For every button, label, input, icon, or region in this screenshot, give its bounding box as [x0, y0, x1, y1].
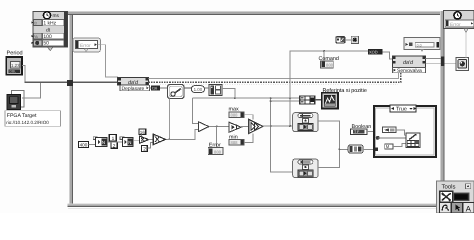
stop terminal pair [336, 37, 345, 43]
encoder FPGA node B [120, 137, 133, 147]
scaling express icon [168, 85, 185, 99]
junction dots [234, 97, 236, 99]
svg-text:888: 888 [231, 113, 239, 118]
position bus wire [192, 97, 299, 99]
timed loop frame bottom band [68, 203, 445, 208]
max constant terminal [229, 112, 244, 118]
svg-text:XOD: XOD [369, 50, 378, 55]
svg-text:Period: Period [7, 50, 23, 57]
subtract function [198, 122, 209, 132]
constant 16 [139, 129, 146, 135]
Boolean terminal [351, 129, 368, 134]
scaled setpoint vertical wire [168, 98, 170, 139]
index array node [209, 85, 222, 96]
svg-text:888: 888 [214, 150, 222, 155]
input node row: period 100 [34, 33, 64, 40]
svg-text:dt: dt [46, 28, 51, 34]
wire pill to index array [205, 87, 210, 89]
setpoint wire to subtract bottom input [166, 130, 199, 140]
thin numeric wire from Deplasare to Servovalva bottom [148, 72, 398, 78]
command wire up to Comand/XOD [290, 51, 368, 126]
wire I16 to Servovalva [382, 52, 392, 59]
svg-text:16: 16 [140, 130, 146, 135]
Error cluster (top-left inside loop) [73, 38, 101, 52]
merge pill node [348, 145, 363, 153]
svg-text:N: N [102, 140, 105, 145]
wire subtract output [209, 125, 229, 127]
gain function triangle [229, 122, 241, 132]
input node row arrows [31, 21, 33, 23]
wire 16 down to multiply [141, 135, 143, 138]
Period terminal icon [6, 57, 22, 75]
border tunnels right [441, 57, 445, 66]
wire branch down to subtract top input [192, 98, 198, 123]
faint dotted wire [160, 84, 398, 86]
wire down to Error indicator [216, 126, 218, 147]
write to file icon [406, 133, 420, 148]
DBL coercion box [151, 86, 160, 91]
coerce function triangle [249, 119, 263, 133]
wire Comand tap [323, 51, 325, 61]
Tools palette operate button [440, 202, 452, 213]
wire tunnel to write icon [378, 137, 406, 139]
case selector terminal [376, 136, 380, 140]
svg-text:2: 2 [143, 147, 146, 153]
wire N! to write icon [393, 144, 406, 147]
wire scaling icon to pill converter [184, 87, 191, 89]
svg-text:Deplasare: Deplasare [122, 86, 145, 92]
constant 1 [109, 135, 116, 143]
wire multiply to divide [149, 139, 154, 141]
Tools palette LED display [454, 193, 469, 201]
svg-text:A: A [466, 204, 472, 213]
Deplasare label box [120, 85, 150, 92]
svg-text:400: 400 [80, 142, 88, 147]
FPGA Target text box [5, 111, 61, 127]
timed loop frame top band [67, 11, 445, 15]
wire gain to coerce [241, 126, 249, 128]
Comand indicator terminal [321, 61, 334, 68]
close reference icon [456, 58, 469, 71]
Servovalva label box [393, 67, 426, 74]
svg-text:ms: ms [53, 14, 60, 19]
min constant terminal [229, 139, 244, 145]
wire lower node output up [318, 149, 339, 167]
timed loop input node (top-left) [33, 11, 67, 47]
svg-text:888: 888 [231, 140, 239, 145]
second loop node bottom tab [464, 29, 468, 33]
wire stop pair to condition [345, 39, 351, 41]
wire 400 to encoder node A [89, 143, 96, 145]
svg-text:I16: I16 [152, 87, 157, 91]
encoder FPGA node A [93, 137, 107, 147]
constant 400 [79, 142, 89, 148]
svg-text:Error: Error [450, 22, 461, 28]
timed loop frame left band [69, 15, 73, 204]
pill numeric converter [191, 86, 204, 93]
svg-text:⏲: ⏲ [34, 20, 37, 25]
wire Boolean to case selector [367, 132, 375, 138]
svg-text:T F: T F [354, 130, 360, 134]
wire max to coerce [244, 115, 253, 120]
wire tunnel to close reference icon [444, 62, 456, 64]
wire branch bundle second input [271, 100, 300, 102]
PWM generator node (lower) [293, 159, 318, 177]
svg-text:888: 888 [326, 63, 334, 68]
Servovalva FPGA write node icon bar [393, 56, 426, 68]
wire DBL to scaling icon [160, 87, 168, 89]
multiply function small [140, 136, 149, 143]
faint second loop border stub [465, 33, 467, 58]
wire Deplasare label to DBL [149, 87, 151, 89]
I16 conversion box [368, 49, 382, 55]
wire Period to main wire [22, 65, 25, 82]
svg-text:FPGA Target: FPGA Target [7, 113, 37, 119]
wire FPGA icon to main wire [22, 82, 41, 98]
svg-text:da′d: da′d [403, 60, 414, 66]
input node row: offset 50 [34, 40, 64, 47]
svg-text:1 kHz: 1 kHz [43, 21, 56, 27]
constant 2 lower [141, 146, 147, 153]
timed loop frame right band [440, 11, 445, 207]
svg-text:0.0: 0.0 [417, 43, 422, 47]
wires Servovalva to border tunnels [426, 57, 442, 59]
svg-text:Servovalva: Servovalva [397, 68, 422, 74]
wire Error cluster to Deplasare node [98, 45, 118, 79]
input node row: 1 kHz source [34, 20, 64, 27]
wire node A to node B [107, 141, 122, 143]
wire index array output down to position bus [222, 89, 235, 99]
XY graph terminal [322, 93, 338, 109]
N! constant box [385, 144, 393, 149]
dashed error wire from Deplasare to Servovalva bottom [148, 72, 400, 82]
svg-text:M: M [386, 144, 390, 149]
Error indicator terminal [208, 148, 223, 155]
top right timed node of second loop [444, 11, 474, 29]
wire coerce output to PWM node [263, 125, 293, 127]
wire 2 up to divide [147, 143, 153, 149]
bundle node [300, 96, 315, 104]
svg-text:Error: Error [80, 43, 91, 49]
wire bundle to XY graph [315, 99, 322, 101]
svg-text:2: 2 [113, 143, 116, 149]
wire node B to multiply [133, 140, 139, 142]
case selector label True [390, 105, 416, 112]
svg-text:100: 100 [43, 34, 52, 40]
divide function [153, 134, 165, 144]
wire pill to write icon [396, 130, 406, 135]
svg-text:N: N [128, 140, 131, 145]
elapsed time pill inside case [383, 127, 397, 133]
wait timer node above Servovalva [404, 38, 440, 52]
PWM generator node (upper) [293, 113, 318, 132]
clock icon on input node [43, 12, 50, 19]
svg-text:1.00: 1.00 [194, 87, 203, 92]
Tools palette text button [463, 202, 474, 213]
Tools palette window [437, 181, 474, 213]
svg-text:50: 50 [43, 41, 49, 47]
Deplasare FPGA read node icon bar [118, 78, 149, 87]
constant 2 (stacked) [111, 142, 117, 149]
Tools palette auto-tool button [440, 191, 453, 202]
case input tunnel [374, 148, 378, 151]
svg-text:1.23: 1.23 [11, 63, 20, 68]
long vertical branch to bottom node [271, 98, 293, 172]
wire pill to case tunnel [363, 148, 375, 150]
case structure True frame [374, 106, 436, 157]
wire min to coerce [244, 134, 253, 143]
Tools palette position button (selected) [452, 202, 463, 213]
loop left border tunnel [67, 80, 73, 86]
svg-text:True: True [396, 107, 407, 113]
input node bottom tab [48, 47, 53, 50]
loop condition terminal [351, 36, 358, 43]
svg-text:rio://10.142.0.2/RIO0: rio://10.142.0.2/RIO0 [6, 120, 49, 125]
svg-text:Tools: Tools [442, 183, 456, 190]
main reference wire into loop [25, 81, 118, 83]
svg-text:DBL: DBL [10, 70, 17, 74]
FPGA target icon [7, 91, 24, 110]
wire upper node output down [318, 121, 348, 149]
